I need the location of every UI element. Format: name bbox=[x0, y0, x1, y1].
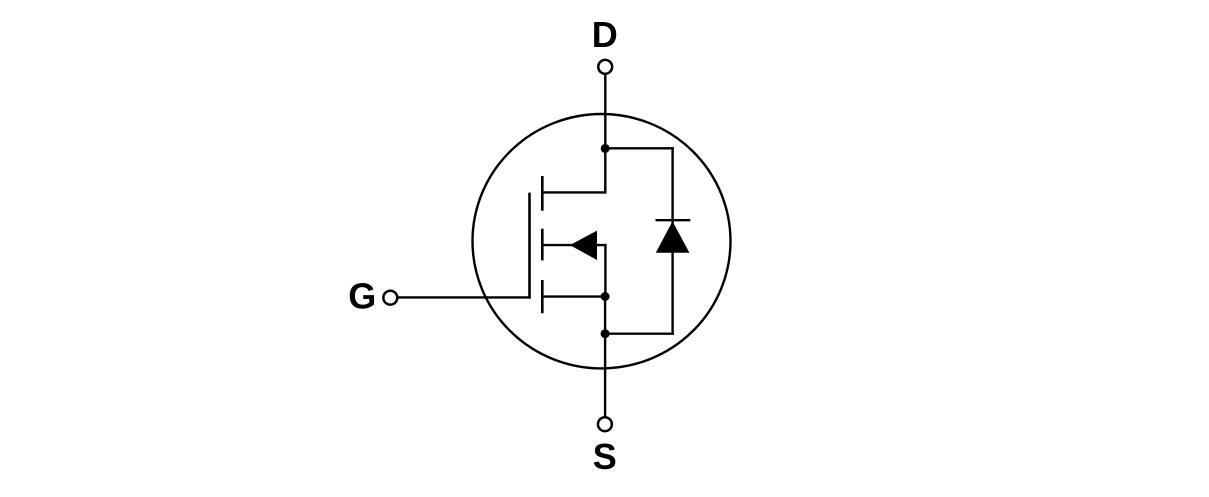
svg-text:G: G bbox=[348, 276, 376, 317]
svg-text:S: S bbox=[593, 436, 617, 477]
svg-text:D: D bbox=[592, 14, 618, 55]
